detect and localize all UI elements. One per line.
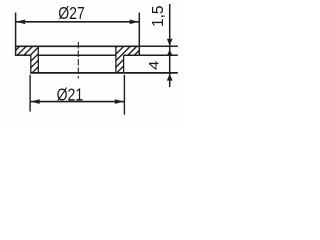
1,5 lower arrowhead pointing up <box>167 50 173 56</box>
flange top edge <box>16 45 140 47</box>
flange bottom edge left segment <box>16 54 31 56</box>
svg-text:4: 4 <box>147 60 162 70</box>
dia21 right arrowhead <box>115 99 124 104</box>
svg-text:1,5: 1,5 <box>150 5 167 27</box>
centerline axis <box>77 42 79 79</box>
flange top extension line right <box>140 45 178 47</box>
section hatch right L <box>116 46 140 73</box>
dia27 left extension line + flange left edge <box>15 13 17 56</box>
right vertical dimension line for 1,5 and 4 <box>169 4 171 87</box>
svg-text:Ø21: Ø21 <box>57 85 84 105</box>
dia21 right extension line <box>123 75 125 115</box>
wall left inner hole edge <box>37 46 39 73</box>
1,5 upper arrowhead pointing down <box>167 39 173 46</box>
dia27 right extension line + flange right edge <box>138 13 140 56</box>
dia27 left arrowhead <box>16 20 25 25</box>
wall right inner hole edge <box>115 46 117 73</box>
wall left outer edge <box>30 55 32 73</box>
dia21 left arrowhead <box>31 99 40 104</box>
wall right outer edge <box>123 55 125 73</box>
section hatch left L <box>16 46 38 73</box>
svg-text:Ø27: Ø27 <box>58 3 85 23</box>
dia27 dimension line <box>16 21 139 23</box>
flange bottom edge middle segment <box>38 54 116 56</box>
dia21 left extension line <box>29 75 31 112</box>
dia21 dimension line <box>31 101 125 103</box>
dia27 right arrowhead <box>130 20 139 25</box>
4 lower arrowhead pointing up <box>167 74 173 81</box>
flange bottom edge right segment + 1,5/4 extension line <box>124 54 178 56</box>
part bottom edge + 4 lower extension line <box>30 72 178 74</box>
